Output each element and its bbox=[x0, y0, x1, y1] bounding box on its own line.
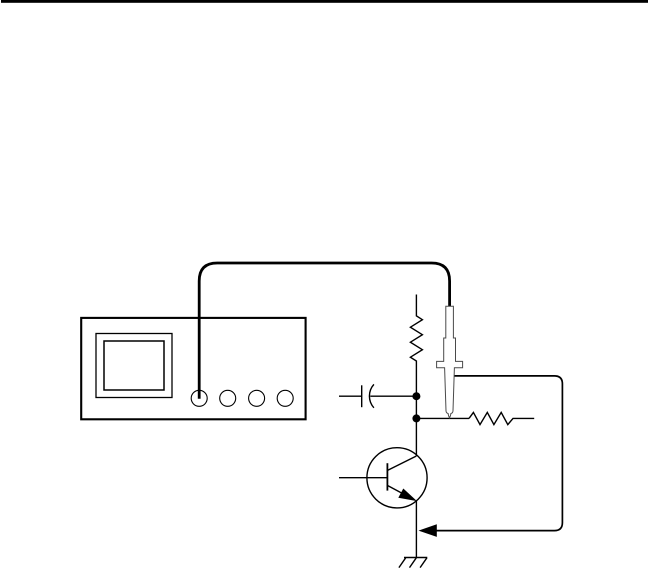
capacitor C1 right curved plate bbox=[369, 384, 373, 407]
ground slash 2 bbox=[410, 558, 417, 568]
transistor Q1 emitter arrowhead bbox=[398, 489, 417, 502]
knob 2 bbox=[220, 390, 236, 406]
node B junction dot bbox=[412, 414, 420, 422]
node A junction dot bbox=[412, 392, 420, 400]
transistor Q1 emitter diagonal bbox=[388, 486, 413, 500]
ground slash 1 bbox=[399, 558, 406, 568]
arrowhead on ground lead bbox=[419, 524, 437, 537]
transistor Q1 base bar bbox=[386, 463, 388, 490]
header rule bbox=[1, 0, 648, 3]
probe P1 body bbox=[437, 306, 463, 418]
knob 1 bbox=[191, 390, 207, 406]
emitter wire to ground bbox=[415, 501, 417, 558]
capacitor C1 left plate bbox=[361, 385, 363, 407]
resistor R2 (horizontal) bbox=[469, 412, 534, 424]
knob 3 bbox=[249, 390, 265, 406]
transistor Q1 base wire bbox=[339, 477, 387, 479]
resistor R1 (vertical) bbox=[410, 295, 422, 397]
oscilloscope screen bezel bbox=[96, 334, 172, 398]
probe cable from scope to probe bbox=[199, 263, 449, 399]
wire node B to transistor collector bbox=[415, 418, 417, 456]
transistor Q1 collector diagonal bbox=[388, 456, 417, 470]
ground bar bbox=[404, 557, 427, 559]
ground slash 3 bbox=[420, 558, 427, 568]
knob 4 bbox=[277, 390, 293, 406]
oscilloscope outer case bbox=[81, 318, 305, 419]
oscilloscope screen bbox=[104, 341, 164, 390]
wire node A to node B bbox=[415, 396, 417, 418]
wire node B to resistor R2 bbox=[416, 417, 469, 419]
capacitor C1 right lead wire to node A bbox=[370, 395, 416, 397]
transistor Q1 circle bbox=[367, 448, 427, 508]
capacitor C1 left lead wire bbox=[339, 395, 362, 397]
ground-lead loop wire (probe ground lead) bbox=[434, 376, 562, 531]
